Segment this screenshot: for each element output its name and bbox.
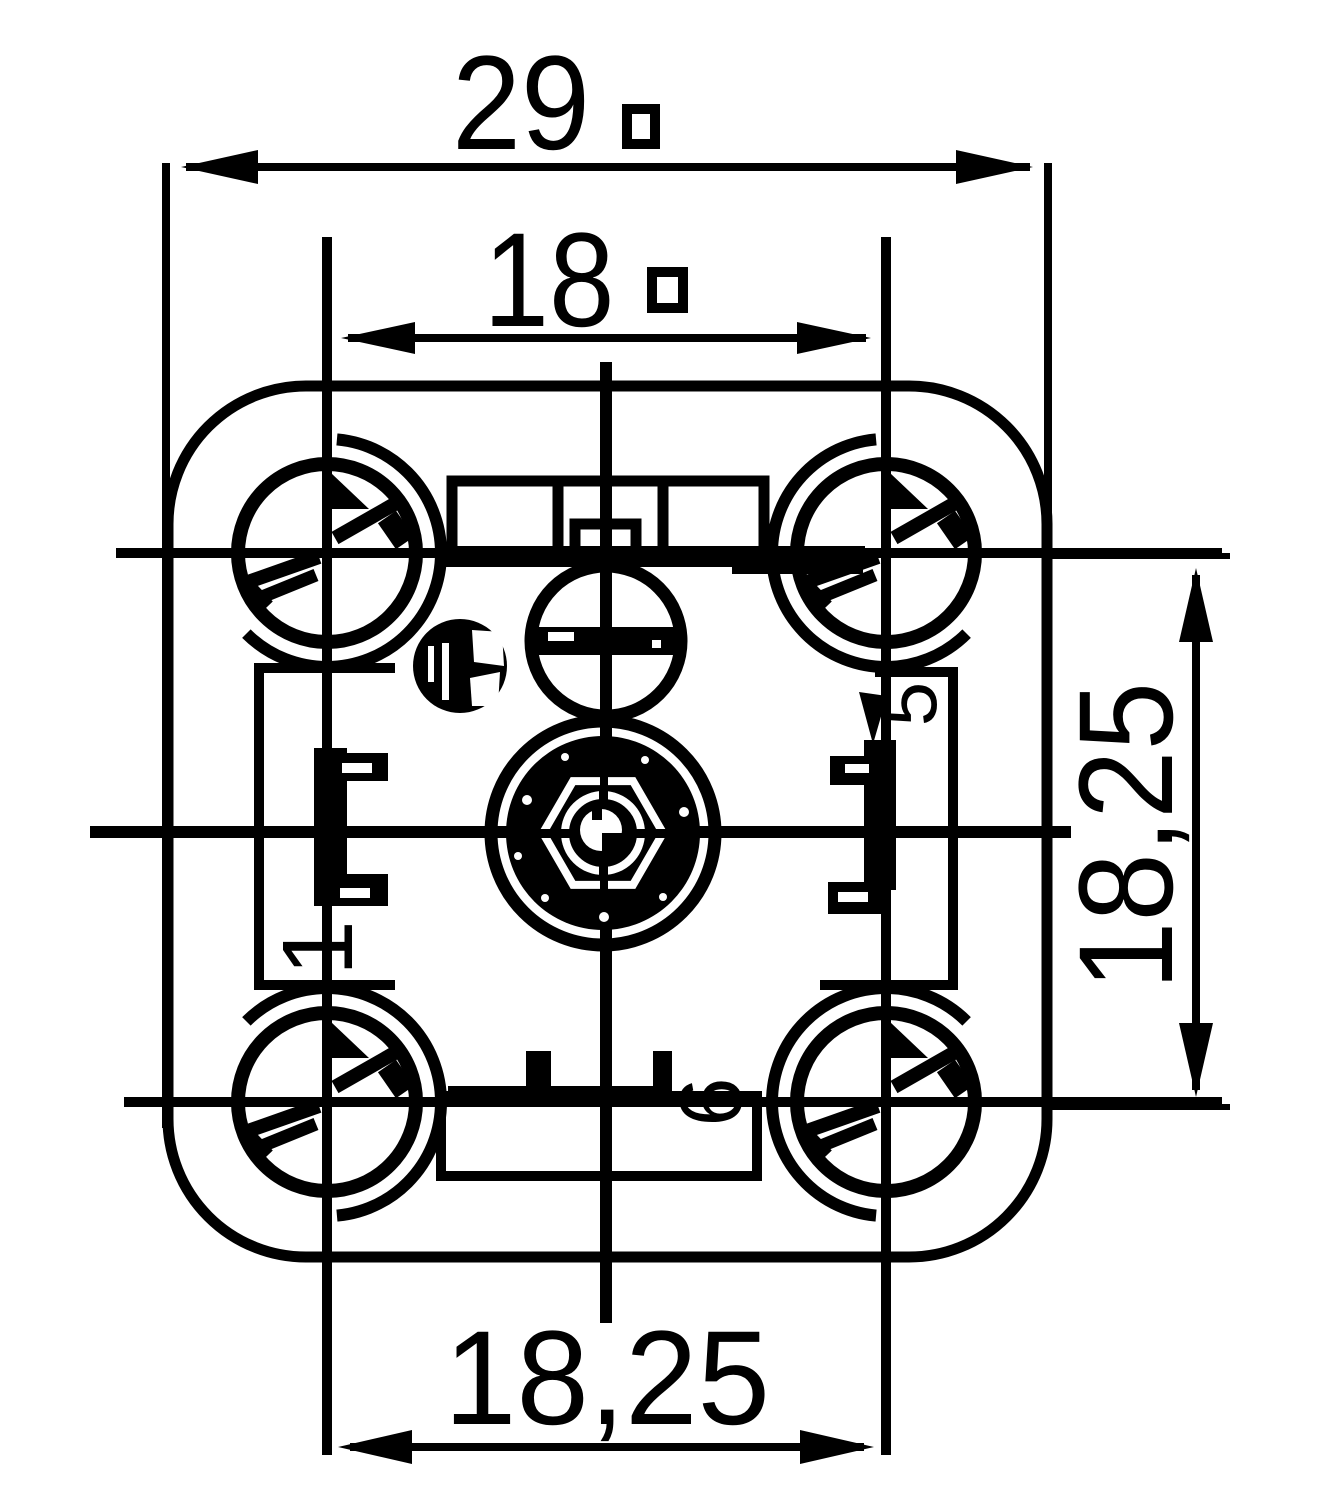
left contact clip (contact 1) bbox=[314, 748, 347, 906]
left pocket rectangle bbox=[259, 668, 395, 985]
dimension line 18,25 right bbox=[1192, 575, 1200, 1090]
extension line 18,25 right top bbox=[1052, 553, 1230, 559]
white speckle dots bbox=[561, 753, 569, 761]
screw head circle (contact 2) bbox=[531, 566, 681, 716]
dimension line 18,25 bottom bbox=[350, 1443, 864, 1451]
small arrowhead near contact 5 bbox=[859, 692, 887, 744]
svg-text:18,25: 18,25 bbox=[444, 1304, 770, 1453]
keying circle white slit 2 bbox=[442, 643, 449, 700]
central white hole bbox=[580, 809, 622, 851]
extension line 29 right bbox=[1044, 163, 1052, 1128]
mounting hole BL bbox=[238, 1013, 416, 1191]
central bushing black disc bbox=[506, 736, 700, 930]
svg-text:18: 18 bbox=[484, 206, 615, 355]
extension line 29 left bbox=[162, 163, 170, 1128]
keying circle white slit 1 bbox=[428, 646, 434, 682]
centerline horizontal bottom holes bbox=[124, 1097, 1222, 1107]
bottom bar tab right bbox=[653, 1051, 672, 1086]
bottom contact bar (contact 6) bbox=[448, 1086, 672, 1107]
body outline rounded square bbox=[168, 386, 1047, 1257]
top contact block divider left bbox=[553, 481, 564, 553]
arrowhead 18 left bbox=[341, 322, 415, 354]
arrowhead 18,25 bottom left bbox=[338, 1430, 412, 1464]
dimension line 29 bbox=[186, 163, 1030, 171]
central key black nib bbox=[592, 808, 602, 820]
arrowhead 29 right bbox=[956, 150, 1033, 184]
arrowhead 18,25 right bottom bbox=[1179, 1023, 1213, 1097]
top contact block inner small rectangle bbox=[575, 524, 636, 553]
bottom pocket rectangle bbox=[441, 1096, 757, 1176]
extension line 18,25 right bottom bbox=[1052, 1104, 1230, 1110]
central key black square bbox=[602, 833, 624, 854]
keying circle white sector top right bbox=[472, 630, 504, 666]
mounting hole TR bbox=[797, 464, 975, 642]
counterbore arc around hole TR bbox=[772, 439, 1000, 667]
arrowhead 18,25 bottom right bbox=[800, 1430, 874, 1464]
thick contact face bar top bbox=[436, 546, 865, 567]
counterbore arc around hole BL bbox=[213, 988, 441, 1216]
centerline ticks over central rings bbox=[599, 786, 608, 800]
arrowhead 18 right bbox=[797, 322, 871, 354]
svg-text:5: 5 bbox=[864, 682, 953, 727]
small keying circle left (filled) bbox=[413, 619, 507, 713]
centerline vertical left (also 18 and 18,25 extension line) bbox=[322, 237, 332, 1455]
arrowhead 18,25 right top bbox=[1179, 568, 1213, 642]
mounting hole BR bbox=[797, 1013, 975, 1191]
top contact block outer rectangle bbox=[452, 481, 764, 553]
centerline vertical middle bbox=[600, 362, 612, 1323]
central bushing outer circle bbox=[491, 721, 715, 945]
keying circle white sector bottom right bbox=[470, 672, 500, 706]
mounting hole TL bbox=[238, 464, 416, 642]
svg-text:18,25: 18,25 bbox=[1052, 682, 1201, 990]
dimension line 18 bbox=[348, 334, 866, 342]
right contact clip (contact 5) bbox=[864, 740, 896, 890]
right pocket rectangle bbox=[820, 672, 953, 985]
bottom bar tab left bbox=[526, 1051, 551, 1086]
contact face bar right step bbox=[732, 560, 863, 574]
centerline vertical right (also 18 and 18,25 extension line) bbox=[881, 237, 891, 1455]
svg-text:29: 29 bbox=[452, 29, 590, 178]
top contact block divider right bbox=[658, 481, 669, 553]
counterbore arc around hole TL bbox=[213, 439, 441, 667]
arrowhead 29 left bbox=[181, 150, 258, 184]
central hex nut white outline bbox=[543, 781, 663, 885]
square symbol after 29 bbox=[627, 109, 655, 144]
svg-text:1: 1 bbox=[262, 920, 374, 976]
centerline horizontal middle bbox=[90, 826, 1071, 838]
screw slot bar bbox=[528, 627, 684, 655]
square symbol after 18 bbox=[652, 272, 683, 308]
central white ring bbox=[565, 795, 641, 871]
svg-text:6: 6 bbox=[661, 1078, 760, 1127]
counterbore arc around hole BR bbox=[772, 988, 1000, 1216]
centerline horizontal top holes bbox=[116, 548, 1222, 558]
